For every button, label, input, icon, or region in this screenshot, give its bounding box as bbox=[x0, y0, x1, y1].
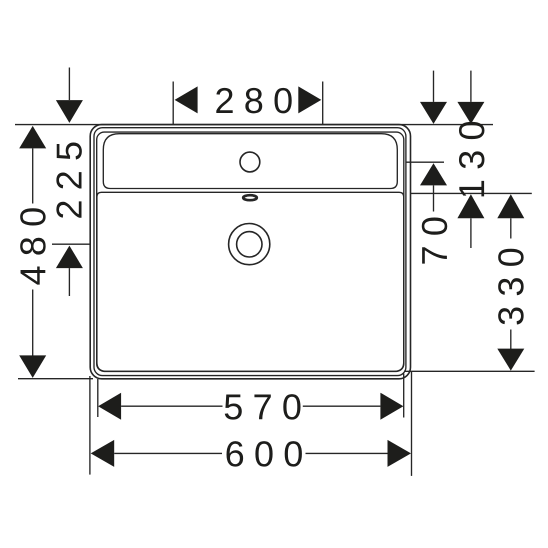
value label 600 bbox=[227, 441, 302, 466]
dimension 570 right arrow bbox=[380, 393, 403, 420]
dimension 70 top stem bbox=[433, 71, 435, 102]
washbasin rim line bbox=[94, 128, 406, 376]
dimension 330 top arrow bbox=[497, 194, 524, 218]
dimension 70 bottom arrow bbox=[420, 163, 447, 185]
dimension 600 right stem bbox=[306, 452, 388, 454]
dimension 280 left arrow bbox=[175, 86, 198, 113]
dimension 225 top stem bbox=[68, 68, 70, 101]
value label 130 bbox=[459, 122, 484, 196]
value label 480 bbox=[20, 208, 45, 284]
extension line 570 right bbox=[403, 374, 405, 418]
dimension 480 top stem bbox=[32, 148, 34, 203]
extension line 600 left bbox=[89, 376, 91, 475]
dimension 600 left arrow bbox=[91, 440, 115, 467]
tap deck outline bbox=[103, 134, 397, 189]
dimension 70 bottom stem bbox=[433, 185, 435, 211]
dimension 570 left stem bbox=[121, 405, 222, 407]
dimension 330 bottom arrow bbox=[497, 349, 524, 371]
dimension 70 top arrow bbox=[420, 102, 447, 124]
value label 280 bbox=[216, 88, 291, 113]
dimension 480 bottom stem bbox=[32, 290, 34, 357]
dimension 130 bottom stem bbox=[470, 218, 472, 248]
drain outer circle bbox=[229, 224, 270, 265]
value label 330 bbox=[498, 249, 523, 325]
bottom-left reference line bbox=[18, 378, 93, 380]
faucet hole bbox=[240, 152, 260, 172]
dimension 570 left arrow bbox=[98, 393, 121, 420]
extension line 570 left bbox=[97, 379, 99, 417]
dimension 130 top arrow bbox=[457, 102, 484, 124]
dimension 480 bottom arrow bbox=[19, 355, 46, 378]
bowl outline bbox=[97, 192, 404, 371]
bottom-right reference line bbox=[404, 370, 535, 372]
right reference line bbox=[411, 192, 532, 194]
extension line 280 left bbox=[172, 82, 174, 125]
dimension 600 right arrow bbox=[388, 440, 412, 467]
value label 225 bbox=[56, 143, 81, 218]
tick line 70 bbox=[407, 161, 445, 163]
dimension 130 bottom arrow bbox=[457, 194, 484, 218]
dimension 330 bottom stem bbox=[510, 330, 512, 350]
dimension 570 right stem bbox=[303, 405, 381, 407]
dimension 600 left stem bbox=[114, 452, 222, 454]
extension line 280 right bbox=[322, 82, 324, 125]
dimension 130 top stem bbox=[470, 71, 472, 102]
extension line 600 right bbox=[411, 372, 413, 476]
top reference line bbox=[15, 124, 493, 126]
dimension 225 top arrow bbox=[56, 100, 83, 123]
dimension 280 right arrow bbox=[298, 86, 321, 113]
dimension 225 bottom arrow bbox=[56, 246, 83, 269]
dimension 330 top stem bbox=[510, 218, 512, 238]
value label 570 bbox=[225, 394, 301, 419]
dimension 225 bottom stem bbox=[68, 268, 70, 296]
tick line 225 bbox=[52, 243, 90, 245]
dimension 480 top arrow bbox=[19, 126, 46, 148]
drain inner circle bbox=[237, 232, 262, 257]
value label 70 bbox=[422, 218, 447, 264]
washbasin outer outline bbox=[90, 125, 410, 379]
washbasin inner rim line bbox=[97, 132, 404, 371]
overflow slot bbox=[243, 195, 257, 200]
